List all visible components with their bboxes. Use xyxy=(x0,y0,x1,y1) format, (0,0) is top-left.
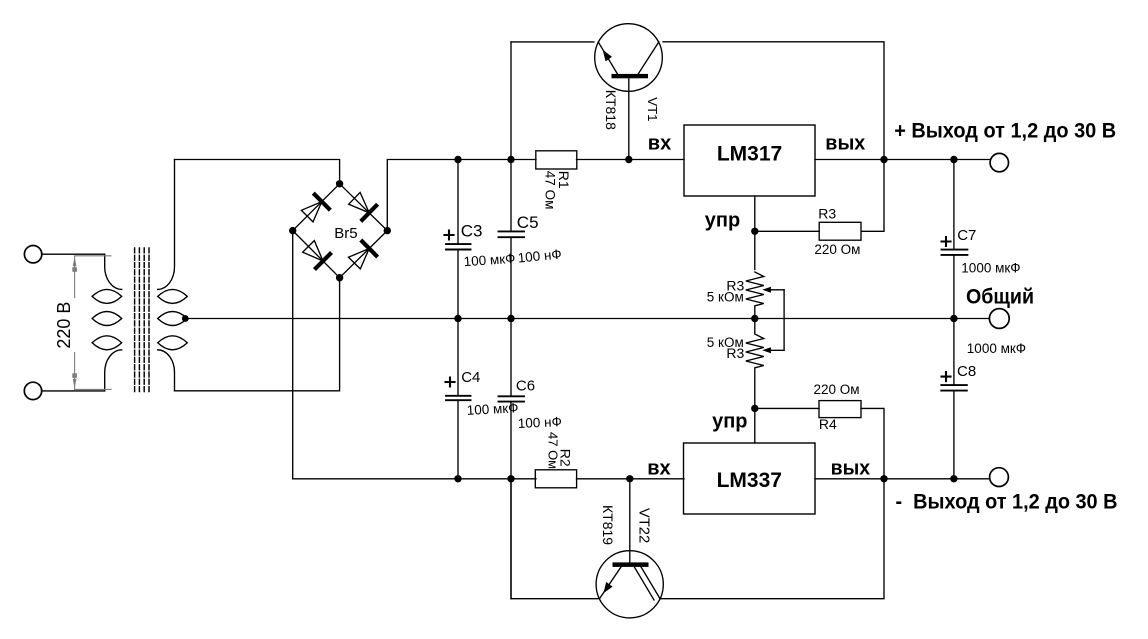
terminal output common xyxy=(989,309,1009,329)
junction negative rail / C4 xyxy=(454,475,461,482)
svg-text:Общий: Общий xyxy=(966,285,1034,308)
wire упр to R4 xyxy=(755,407,819,409)
wire bottom loop right xyxy=(660,479,884,599)
junction bridge right xyxy=(384,227,391,234)
capacitor C3 xyxy=(445,160,471,319)
junction center rail / C7 C8 xyxy=(950,315,957,322)
junction negative rail / VT22 base xyxy=(626,475,633,482)
terminal output positive xyxy=(990,153,1008,171)
terminal input top xyxy=(24,246,41,263)
wire center rail (Общий) xyxy=(185,318,989,320)
wire VT1 base lead xyxy=(628,78,630,159)
transformer center tap junction xyxy=(182,315,189,322)
capacitor C8 xyxy=(941,319,967,479)
resistor R2 xyxy=(535,470,576,488)
junction center rail / pots xyxy=(751,315,758,322)
wire LM317 output xyxy=(815,159,989,161)
wire secondary bottom to bridge xyxy=(175,278,340,391)
transistor VT22 xyxy=(596,551,663,618)
regulator U1 LM317 xyxy=(684,125,815,196)
junction bridge left xyxy=(289,227,296,234)
wire LM337 output xyxy=(815,478,989,480)
wire secondary top to bridge xyxy=(175,160,340,184)
svg-text:47 Ом: 47 Ом xyxy=(542,171,557,210)
junction center rail / C3 C4 xyxy=(454,315,461,322)
svg-text:1000 мкФ: 1000 мкФ xyxy=(967,341,1026,356)
potentiometer R3 upper (5 кОм) xyxy=(746,272,764,319)
svg-text:R4: R4 xyxy=(819,416,837,432)
regulator U2 LM337 xyxy=(684,443,816,514)
resistor R4 (220 Ом) xyxy=(819,401,861,418)
junction negative rail / C6 xyxy=(507,475,514,482)
capacitor C4 xyxy=(446,319,471,479)
wire top loop right xyxy=(663,42,884,160)
svg-text:1000 мкФ: 1000 мкФ xyxy=(961,260,1020,275)
svg-text:- Выход от 1,2 до 30 В: - Выход от 1,2 до 30 В xyxy=(896,491,1118,514)
transformer T1 secondary winding xyxy=(158,160,188,391)
resistor R1 xyxy=(536,151,577,169)
svg-text:5 кОм: 5 кОм xyxy=(707,290,744,305)
terminal input bottom xyxy=(24,382,41,399)
svg-text:упр: упр xyxy=(712,410,747,432)
bridge Br5 diode D4 xyxy=(340,231,388,278)
bridge Br5 diode D1 xyxy=(293,184,340,231)
capacitor C7 xyxy=(942,160,968,319)
svg-text:C6: C6 xyxy=(516,377,535,394)
svg-text:вх: вх xyxy=(648,133,671,155)
transformer T1 primary winding xyxy=(92,255,122,391)
junction упр top xyxy=(751,228,758,235)
svg-text:КТ819: КТ819 xyxy=(600,505,616,545)
svg-text:R2: R2 xyxy=(557,449,573,467)
wire bottom loop left xyxy=(511,479,598,599)
svg-text:+ Выход от 1,2 до 30 В: + Выход от 1,2 до 30 В xyxy=(894,120,1116,143)
wire negative rail right of R2 xyxy=(577,478,685,480)
svg-text:вых: вых xyxy=(825,133,865,155)
svg-text:C7: C7 xyxy=(957,227,976,244)
svg-text:VT22: VT22 xyxy=(636,508,652,543)
wire input bottom xyxy=(42,390,105,392)
svg-text:100 нФ: 100 нФ xyxy=(517,414,562,431)
svg-text:вх: вх xyxy=(647,458,670,480)
wire top loop left xyxy=(511,41,594,43)
svg-text:C4: C4 xyxy=(461,369,480,386)
svg-text:R3: R3 xyxy=(818,206,836,222)
junction упр bottom xyxy=(751,405,758,412)
wire упр to R3 xyxy=(755,230,819,232)
wire positive rail right of R1 xyxy=(577,159,685,161)
wire LM317 adj lead xyxy=(754,196,756,270)
wire R4 to output rail xyxy=(861,408,884,478)
svg-text:Br5: Br5 xyxy=(334,225,357,242)
junction positive rail / C3 xyxy=(454,156,461,163)
svg-text:упр: упр xyxy=(705,209,740,231)
wire input top xyxy=(42,253,105,255)
transformer T1 core xyxy=(135,248,149,394)
svg-text:220 Ом: 220 Ом xyxy=(814,242,860,257)
svg-text:КТ818: КТ818 xyxy=(603,90,619,130)
capacitor C5 xyxy=(499,42,525,396)
svg-text:C8: C8 xyxy=(957,363,976,380)
wire LM337 adj lead xyxy=(754,408,756,443)
junction center rail / C5 C6 xyxy=(507,315,514,322)
bridge Br5 diode D2 xyxy=(340,184,388,231)
dimension 220 V xyxy=(72,256,111,390)
svg-text:220 Ом: 220 Ом xyxy=(814,382,860,397)
junction bottom output rail / C8 xyxy=(950,475,957,482)
terminal output negative xyxy=(990,468,1009,487)
svg-text:220 В: 220 В xyxy=(54,302,74,349)
svg-text:C5: C5 xyxy=(517,213,539,232)
junction output rail / R3 xyxy=(880,156,887,163)
svg-text:C3: C3 xyxy=(461,222,483,241)
wire R3 to output rail xyxy=(862,160,884,232)
svg-text:LM337: LM337 xyxy=(717,469,782,492)
wire negative rail xyxy=(293,231,536,479)
svg-text:VT1: VT1 xyxy=(645,97,660,121)
junction positive rail / VT1 base xyxy=(625,156,632,163)
svg-text:LM317: LM317 xyxy=(717,142,782,165)
svg-text:R1: R1 xyxy=(556,171,572,189)
junction bridge bottom xyxy=(336,274,343,281)
junction bottom output rail / R4 xyxy=(880,475,887,482)
svg-text:R3: R3 xyxy=(726,345,744,361)
wiper link wires xyxy=(762,287,784,354)
junction bridge top xyxy=(336,180,343,187)
wire VT22 base lead xyxy=(629,479,631,563)
potentiometer R3 lower (5 кОм) xyxy=(746,319,764,409)
junction output rail / C7 xyxy=(950,156,957,163)
wire positive rail xyxy=(387,160,536,231)
bridge Br5 diode D3 xyxy=(293,231,340,278)
capacitor C6 xyxy=(499,396,525,598)
transistor VT1 xyxy=(595,24,663,92)
junction positive rail / C5 xyxy=(507,156,514,163)
svg-text:вых: вых xyxy=(831,458,871,480)
resistor R3 (220 Ом) xyxy=(819,222,861,240)
